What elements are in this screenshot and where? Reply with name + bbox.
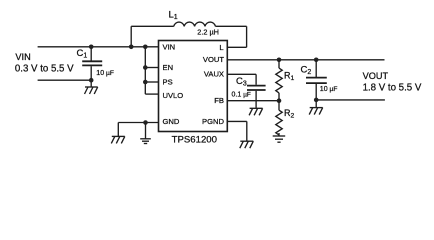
node: C1 top junction <box>89 45 94 50</box>
wire GND pin <box>118 123 158 137</box>
resistor R2 <box>276 101 282 136</box>
svg-text:VIN: VIN <box>163 42 176 51</box>
node: R1 top junction <box>277 58 282 63</box>
node: bus top junction <box>143 45 148 50</box>
wire riser to inductor <box>130 26 132 47</box>
ground (earth) under R2 <box>273 136 286 142</box>
svg-text:C1: C1 <box>77 48 88 60</box>
svg-text:PS: PS <box>163 78 173 87</box>
svg-text:10 µF: 10 µF <box>320 86 338 93</box>
ground (chassis) under PGND <box>240 141 254 148</box>
svg-text:VOUT: VOUT <box>203 55 224 64</box>
svg-text:C2: C2 <box>301 65 312 77</box>
svg-text:1.8 V to 5.5 V: 1.8 V to 5.5 V <box>363 83 422 94</box>
ground (chassis) under C3 <box>249 108 263 115</box>
node: PS junction <box>143 80 148 85</box>
wire inductor to L pin <box>227 26 246 47</box>
inductor L1 <box>131 22 246 26</box>
ground (chassis) under C2 <box>309 100 323 115</box>
wire VOUT rail <box>227 59 384 61</box>
svg-text:UVLO: UVLO <box>163 91 184 100</box>
svg-text:PGND: PGND <box>202 117 224 126</box>
node: C2 top junction <box>314 58 319 63</box>
node: FB junction <box>277 98 282 103</box>
node: C1 bottom junction <box>89 78 94 83</box>
wire lower output rail <box>316 99 385 101</box>
svg-text:C3: C3 <box>236 76 247 88</box>
wire EN/PS/UVLO bus <box>145 47 158 94</box>
capacitor C1 <box>82 47 102 80</box>
capacitor C2 <box>306 60 327 100</box>
svg-text:10 µF: 10 µF <box>96 70 114 77</box>
node: C2 bottom junction <box>314 98 319 103</box>
svg-text:L1: L1 <box>169 10 178 22</box>
svg-text:GND: GND <box>163 117 180 126</box>
svg-text:VIN: VIN <box>15 52 30 62</box>
svg-text:FB: FB <box>214 96 224 105</box>
node: EN junction <box>143 65 148 70</box>
svg-text:EN: EN <box>163 63 174 72</box>
op-amp U1 : IC box TPS61200 <box>159 41 228 132</box>
svg-text:VOUT: VOUT <box>363 71 389 81</box>
svg-text:R1: R1 <box>284 71 295 83</box>
wire FB <box>227 100 279 102</box>
node: GND junction <box>143 120 148 125</box>
svg-text:0.1 µF: 0.1 µF <box>232 92 251 99</box>
ground (chassis) under C1 <box>85 80 98 94</box>
ground (earth) at GND junction <box>140 123 151 144</box>
svg-text:0.3 V to 5.5 V: 0.3 V to 5.5 V <box>15 64 74 75</box>
wire VIN top rail <box>38 46 159 48</box>
svg-text:VAUX: VAUX <box>204 69 224 78</box>
wire lower input rail <box>38 79 92 81</box>
svg-text:TPS61200: TPS61200 <box>172 134 217 145</box>
ground (chassis) left of GND <box>111 136 125 143</box>
node: inductor riser junction <box>129 45 134 50</box>
wire VAUX to C3 <box>227 74 256 85</box>
wire PGND <box>227 121 247 141</box>
capacitor C3 <box>247 86 266 109</box>
resistor R1 <box>276 60 282 101</box>
svg-text:2.2 µH: 2.2 µH <box>197 27 219 36</box>
svg-text:R2: R2 <box>284 108 295 120</box>
svg-text:L: L <box>219 43 223 52</box>
